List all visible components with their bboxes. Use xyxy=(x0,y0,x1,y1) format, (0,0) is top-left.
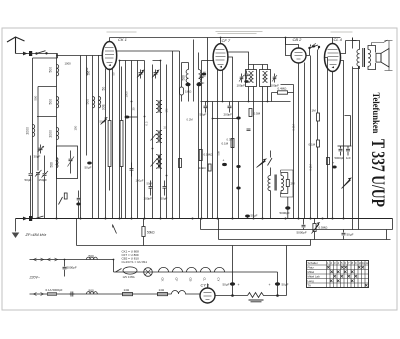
tube CK1 cathode arrow xyxy=(109,64,112,66)
resistor R5 below bus xyxy=(142,219,145,246)
IF T5 trimmer xyxy=(272,74,277,83)
output transformer core xyxy=(363,48,365,67)
wire vertical x119 xyxy=(119,61,121,219)
IF transformer T2b coil xyxy=(160,131,162,143)
speaker cone xyxy=(381,49,389,68)
svg-text:50μF: 50μF xyxy=(147,182,154,186)
svg-text:CL4/CY1 = UU 811: CL4/CY1 = UU 811 xyxy=(122,260,148,264)
electro cap CE1 xyxy=(229,246,235,297)
IF transformer T1b coil xyxy=(160,101,162,113)
wire vertical x172 xyxy=(172,51,174,219)
nested line y229 xyxy=(201,219,393,230)
switch S1 wave switch xyxy=(37,51,46,54)
svg-text:CK: CK xyxy=(161,278,165,282)
coil box left edge xyxy=(57,158,58,168)
wire CB2 left xyxy=(286,47,292,56)
wire vertical x137 xyxy=(137,61,139,219)
svg-text:ZF=484 kHz: ZF=484 kHz xyxy=(25,233,47,237)
wire capsule xyxy=(182,63,189,102)
wire rowB to x320 xyxy=(278,246,287,296)
wire vertical x201 xyxy=(201,61,203,219)
wire vertical x198 xyxy=(198,53,200,219)
svg-text:Mittel Lab: Mittel Lab xyxy=(308,275,321,279)
svg-text:500: 500 xyxy=(182,75,186,81)
svg-text:+: + xyxy=(223,159,225,163)
tube CY1 electrodes xyxy=(204,293,212,300)
tube CY1 envelope xyxy=(200,288,215,303)
wire x248 bottom xyxy=(248,87,250,102)
ground arrow xyxy=(12,233,20,239)
coil L7 500 xyxy=(99,97,101,108)
svg-text:5000pF: 5000pF xyxy=(280,211,290,215)
heater arc CB xyxy=(187,267,197,272)
wire horizontal y60 osc xyxy=(120,60,161,62)
wire branch y86 xyxy=(38,86,57,88)
IF T4 trimmer xyxy=(239,74,244,83)
mains row B wire xyxy=(30,293,172,295)
tube CF7 electrodes xyxy=(216,50,226,65)
svg-text:50μF: 50μF xyxy=(223,283,230,287)
wire vertical x350 xyxy=(345,116,351,147)
IF T3 core xyxy=(158,155,159,169)
svg-text:0.1M: 0.1M xyxy=(309,143,316,147)
wire vertical x207 xyxy=(207,38,209,219)
switch x58 low xyxy=(59,197,63,205)
blob x238 c xyxy=(236,187,240,190)
svg-text:CY: CY xyxy=(217,278,221,282)
cap C12 below bus xyxy=(302,219,306,230)
IF transformer T4 box xyxy=(246,70,257,87)
svg-text:1MΩ: 1MΩ xyxy=(185,90,192,94)
svg-text:CL 4: CL 4 xyxy=(334,37,343,42)
nested line y236 xyxy=(219,219,391,240)
wire CY1 top xyxy=(207,284,209,289)
wire T4 T5 tops xyxy=(249,65,268,70)
wire x267 bottom xyxy=(267,87,269,102)
fuse row B xyxy=(48,293,57,296)
wire AF primary xyxy=(270,168,272,219)
junction dots middle xyxy=(119,60,168,177)
wire transformer right to speaker xyxy=(368,46,376,70)
resistor R10 x317 xyxy=(317,50,320,219)
svg-text:100pF: 100pF xyxy=(144,197,153,201)
resistor R11 x250 xyxy=(249,109,252,117)
svg-text:2000: 2000 xyxy=(26,127,30,135)
svg-text:Telefunken: Telefunken xyxy=(371,93,381,134)
wire y55 to grid coils xyxy=(57,56,99,61)
coil L3 2000 xyxy=(57,128,59,140)
potentiometer arrow det xyxy=(257,159,267,168)
cap C9 on y101 xyxy=(204,102,208,113)
wire y145 link xyxy=(338,145,352,147)
switch on bus xyxy=(36,216,44,219)
wire CK1 anode right y50 xyxy=(117,50,180,52)
wire vertical x310 xyxy=(311,45,319,50)
svg-text:T 337 U/UP: T 337 U/UP xyxy=(367,139,388,207)
dial scale oval xyxy=(123,267,137,274)
switch box bottom left xyxy=(57,146,78,179)
wire right edge x392 xyxy=(392,219,394,230)
IF transformer T3b coil xyxy=(159,155,162,169)
svg-text:5000pF: 5000pF xyxy=(67,266,77,270)
svg-text:1M: 1M xyxy=(312,109,317,113)
svg-text:50pF: 50pF xyxy=(25,178,32,182)
heater arc CL xyxy=(201,267,211,272)
svg-text:50pF: 50pF xyxy=(200,113,207,117)
blob C7 xyxy=(202,73,206,76)
wire vertical x310b xyxy=(310,56,312,219)
wire osc core vertical xyxy=(193,40,195,102)
svg-text:50μF: 50μF xyxy=(347,233,354,237)
resistor R2 tall x121 xyxy=(120,67,123,219)
svg-text:Schalter: Schalter xyxy=(308,261,318,265)
svg-text:+: + xyxy=(333,161,335,165)
svg-text:0.1M: 0.1M xyxy=(222,142,229,146)
tube CB2 envelope xyxy=(291,48,306,63)
svg-text:2M: 2M xyxy=(291,182,296,186)
cap hang x347 xyxy=(346,146,350,156)
drop x64 rowA xyxy=(63,260,67,277)
svg-text:500: 500 xyxy=(34,95,38,100)
electro cap CE2 xyxy=(233,272,281,296)
wire to band filter xyxy=(57,54,59,59)
svg-text:CF 7: CF 7 xyxy=(222,38,231,43)
svg-text:50μF: 50μF xyxy=(251,214,258,218)
coil L5 xyxy=(86,68,89,76)
junction dots bus xyxy=(56,218,345,220)
tube CF7 cathode dot xyxy=(220,66,223,68)
svg-text:0.2M: 0.2M xyxy=(187,118,194,122)
wire vertical x166 xyxy=(166,65,168,219)
wire left band filter vertical xyxy=(32,58,34,219)
cap C7 50uF xyxy=(200,74,204,81)
svg-text:CY 1: CY 1 xyxy=(201,283,210,288)
IF T4 coil a xyxy=(249,72,251,83)
svg-text:0.4MΩ: 0.4MΩ xyxy=(278,87,288,91)
wire below CF7 x222 xyxy=(222,70,224,102)
coil L6 500 xyxy=(93,97,95,108)
IF T5 coil a xyxy=(263,72,265,83)
wire top of band filter xyxy=(33,57,58,59)
wire vertical x358 xyxy=(358,67,360,230)
wire vertical x212 xyxy=(212,102,214,219)
antenna symbol xyxy=(7,37,25,54)
wire right x386 xyxy=(386,230,388,240)
svg-text:14Ω: 14Ω xyxy=(124,288,130,292)
IF T2 core xyxy=(158,131,159,143)
wire CF7 grid left xyxy=(202,60,214,62)
switch below bus xyxy=(113,225,117,234)
hop crossover rowB xyxy=(172,291,201,295)
cap C8 xyxy=(245,71,249,80)
heater arc CK xyxy=(159,267,169,272)
nested line y245 xyxy=(77,219,311,246)
main bus y218 xyxy=(16,218,393,220)
resistor R8 zigzag xyxy=(248,293,278,298)
pot arrow x103 xyxy=(101,118,108,125)
speaker top link xyxy=(372,40,388,46)
cap on bus left blob xyxy=(29,216,32,221)
svg-text:0.2M: 0.2M xyxy=(309,164,313,171)
wire CY1 right xyxy=(215,294,248,296)
svg-text:0.3: 0.3 xyxy=(145,121,149,125)
resistor R7 rowB xyxy=(158,293,168,296)
svg-text:100pF: 100pF xyxy=(237,84,246,88)
pilot lamp circle xyxy=(144,268,153,277)
voltage table frame xyxy=(307,261,369,288)
arrow on bus xyxy=(23,217,27,220)
cap C3 bottom xyxy=(43,156,47,219)
svg-text:500: 500 xyxy=(86,99,90,105)
AF transformer primary winding xyxy=(268,176,271,191)
svg-text:CF: CF xyxy=(175,278,179,282)
svg-text:2000: 2000 xyxy=(49,130,53,138)
wire vertical x352 xyxy=(352,38,354,230)
resistor R14 xyxy=(208,164,211,171)
capsule resistor osc xyxy=(180,87,184,95)
cap mid blob x126 xyxy=(125,116,130,119)
cap C13 below bus xyxy=(342,230,346,240)
svg-text:0.3M: 0.3M xyxy=(227,138,234,142)
svg-text:220V~: 220V~ xyxy=(29,276,41,280)
svg-text:50μF: 50μF xyxy=(85,166,92,170)
resistor R15 low xyxy=(64,193,67,199)
arrow plug antenna xyxy=(23,52,27,55)
svg-text:1000: 1000 xyxy=(125,91,129,98)
switch heater row xyxy=(116,269,122,273)
osc coil L9 xyxy=(199,70,201,83)
extra left block labels xyxy=(34,62,91,131)
voltage table rows xyxy=(307,265,369,283)
tube CL4 cathode xyxy=(332,66,335,68)
AF transformer secondary winding xyxy=(281,176,284,191)
drop x113 xyxy=(113,260,115,273)
IF transformer T5 box xyxy=(260,70,271,87)
table X marks xyxy=(327,266,368,287)
wire below CK1 x105 xyxy=(105,69,107,219)
resistor R3 xyxy=(179,159,182,168)
wire vertical x160 xyxy=(160,61,162,219)
svg-text:50μF: 50μF xyxy=(100,120,107,124)
capacitor C1 antenna series xyxy=(29,51,32,56)
cap C15 xyxy=(130,163,134,177)
header faint marks xyxy=(107,32,353,34)
cap C16 xyxy=(247,129,251,131)
sprinkle tiny labels mid-left xyxy=(100,72,313,186)
IF transformer T1a coil xyxy=(156,101,158,113)
tube CK1 envelope xyxy=(102,42,116,70)
svg-text:150: 150 xyxy=(74,125,78,130)
electro blob mid xyxy=(222,163,227,166)
wire top bus y37 xyxy=(110,37,341,39)
junction y118 xyxy=(212,118,214,120)
wire R4 frame xyxy=(272,85,294,219)
osc padder blob left xyxy=(185,83,190,86)
heater arc CY xyxy=(215,267,225,272)
svg-text:0.1MΩ: 0.1MΩ xyxy=(204,153,214,157)
ground wire left xyxy=(15,219,17,232)
wire vertical x238 xyxy=(238,102,240,219)
wire vertical x285 xyxy=(285,38,287,47)
wire vertical x97.5 xyxy=(98,61,100,219)
svg-text:200pF: 200pF xyxy=(224,113,233,117)
cap hang x340 xyxy=(339,146,343,156)
wire bus y101 xyxy=(201,101,291,103)
blob x238 b xyxy=(236,165,240,168)
tube CF7 envelope xyxy=(213,44,228,71)
wire vertical x304 xyxy=(304,63,306,219)
tube CB2 electrodes xyxy=(295,53,303,60)
svg-text:50pF: 50pF xyxy=(198,81,205,85)
svg-text:CB: CB xyxy=(189,278,193,282)
svg-text:14Ω: 14Ω xyxy=(159,288,165,292)
cap blob x78 low xyxy=(76,191,80,219)
IF transformer T2a coil xyxy=(156,131,158,143)
svg-text:+: + xyxy=(238,283,240,287)
cap C10 on y101 xyxy=(228,102,232,113)
speaker magnet rect xyxy=(376,53,381,62)
trimmer cap CT2 xyxy=(35,87,42,219)
wire det switch xyxy=(270,151,272,158)
wire vertical x152 xyxy=(152,65,154,219)
blob x238 a xyxy=(236,117,240,120)
svg-text:50pF: 50pF xyxy=(161,197,168,201)
blob C8 xyxy=(244,80,248,83)
blob cap x89 xyxy=(87,162,92,165)
heater row wire xyxy=(114,271,230,273)
wire transformer left top xyxy=(353,38,360,50)
wire vertical x125 xyxy=(125,61,127,219)
svg-text:30pF: 30pF xyxy=(34,155,41,159)
switch S2 tone xyxy=(309,44,320,49)
svg-text:1M: 1M xyxy=(165,108,169,113)
wire vertical x92.5 xyxy=(92,61,94,219)
resistor R4 0.4M xyxy=(272,91,294,94)
wire mid band filter vertical xyxy=(56,54,58,219)
output transformer right winding xyxy=(368,50,371,67)
wire C14 down xyxy=(287,210,289,219)
wire S2 left lead xyxy=(306,48,310,56)
switch det xyxy=(268,158,273,166)
svg-text:150pF: 150pF xyxy=(39,178,48,182)
wire y116 link xyxy=(126,116,138,118)
svg-text:50μF: 50μF xyxy=(282,283,289,287)
wire transformer left bottom xyxy=(353,66,360,68)
svg-text:0.1A 5000pF: 0.1A 5000pF xyxy=(46,288,63,292)
tube CL4 envelope xyxy=(325,44,341,72)
svg-text:CB 2: CB 2 xyxy=(293,37,303,42)
chassis bar under R8 xyxy=(249,300,264,302)
wire x262 bottom xyxy=(262,87,264,219)
osc coil L8 xyxy=(186,70,188,83)
trimmer cap CT3 inside box xyxy=(68,151,75,174)
AF transformer box xyxy=(281,170,294,197)
coil L2 500 xyxy=(57,97,59,108)
svg-text:24kΩ: 24kΩ xyxy=(199,166,207,170)
svg-text:20: 20 xyxy=(164,126,168,130)
svg-text:500: 500 xyxy=(49,99,53,105)
wire vertical x144 xyxy=(144,61,146,219)
wire AF secondary leads xyxy=(281,173,288,207)
svg-text:50kΩ: 50kΩ xyxy=(147,231,155,235)
connector arrows row B xyxy=(34,293,44,296)
svg-text:500: 500 xyxy=(89,255,95,259)
blob right of R17 xyxy=(332,166,336,169)
coil L11 rowB xyxy=(87,292,98,294)
wire CL4 anode right xyxy=(341,41,357,54)
svg-text:+: + xyxy=(269,283,271,287)
wire CF7 anode y51 xyxy=(228,52,249,65)
wire vertical x86 xyxy=(86,61,88,156)
svg-text:Platz: Platz xyxy=(308,266,315,270)
wire x253 bottom xyxy=(253,87,255,219)
tube CK1 electrodes xyxy=(105,48,114,63)
wire CL4 top xyxy=(332,38,334,44)
cap C2 bottom left xyxy=(29,156,33,219)
svg-text:5000pF: 5000pF xyxy=(297,231,307,235)
variable cap VC1 xyxy=(137,70,144,79)
wire CK1 grid left xyxy=(98,55,102,57)
resistor R6 rowB xyxy=(123,293,133,296)
svg-text:5000pF: 5000pF xyxy=(335,156,345,160)
wire CF7 screen y56 xyxy=(228,57,233,219)
IF transformer T3a coil xyxy=(156,155,159,169)
osc padder blob right xyxy=(196,83,201,86)
trimmer arrows IF xyxy=(151,134,157,141)
connector arrows row A xyxy=(34,258,58,261)
pot arrow right xyxy=(342,178,352,189)
trimmer cap CT1 xyxy=(38,145,45,154)
AF transformer core xyxy=(275,175,276,191)
IF T5 coil b xyxy=(266,72,268,83)
series cap row B xyxy=(70,292,75,297)
svg-text:50: 50 xyxy=(102,87,106,91)
coil L10 rowA xyxy=(87,257,98,259)
table header cols ticks xyxy=(327,261,369,265)
svg-text:12V 0.05A: 12V 0.05A xyxy=(123,275,135,279)
wire below CK1 x112 xyxy=(112,69,114,219)
junction dots power xyxy=(84,245,114,260)
svg-text:TA: TA xyxy=(308,284,312,288)
svg-text:0.3M: 0.3M xyxy=(292,124,296,131)
wire vertical x188 xyxy=(188,63,190,102)
voltage table columns xyxy=(327,261,366,288)
tube data text block xyxy=(122,250,148,265)
svg-text:Mittel: Mittel xyxy=(308,270,315,274)
wire branch y116 xyxy=(37,116,57,118)
variable cap VC2 xyxy=(152,70,159,79)
wire CB2 bottom xyxy=(298,63,300,219)
wire CF7 top cap xyxy=(220,38,222,44)
blob S2 xyxy=(312,45,316,47)
resistor R17 x327 xyxy=(327,158,330,165)
svg-text:30: 30 xyxy=(132,107,136,111)
IF T4 coil b xyxy=(252,72,254,83)
wire vertical x131 xyxy=(131,61,133,219)
svg-text:CL: CL xyxy=(203,278,207,282)
svg-text:50k: 50k xyxy=(217,150,221,155)
svg-text:500: 500 xyxy=(49,67,53,73)
resistor R13 xyxy=(199,150,202,161)
coil L4 2000 on left xyxy=(33,125,35,137)
heater arc CF xyxy=(173,267,183,272)
svg-text:100μF: 100μF xyxy=(136,179,144,183)
svg-text:1000: 1000 xyxy=(65,62,72,66)
junction rowA x64 xyxy=(64,259,66,261)
svg-text:1nF: 1nF xyxy=(346,156,351,160)
cap C14 blob xyxy=(285,206,290,209)
wire CL4 grid left xyxy=(325,58,328,219)
